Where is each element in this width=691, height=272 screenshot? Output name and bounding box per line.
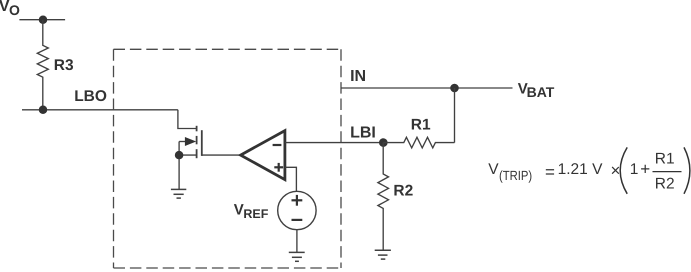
resistor R2 — [378, 143, 389, 251]
voltage source VREF circle — [278, 191, 316, 229]
wire source lead — [179, 154, 196, 156]
equation V(TRIP) — [488, 151, 674, 193]
wire VREF to ground — [296, 230, 298, 253]
svg-text:R1: R1 — [655, 151, 675, 168]
transistor Q1 gate bar — [201, 130, 203, 156]
junction dot VBAT node — [450, 84, 459, 93]
equation fraction bar — [653, 171, 682, 173]
svg-text:1.21 V: 1.21 V — [558, 161, 603, 178]
ground VREF — [289, 252, 305, 261]
wire LBI to minus input — [285, 142, 383, 144]
plus input symbol — [274, 163, 283, 172]
svg-text:LBO: LBO — [74, 88, 107, 105]
junction dot LBO node — [39, 106, 48, 115]
equation big right paren — [684, 147, 690, 193]
wire gate lead to comparator output — [202, 154, 241, 156]
dashed IC boundary box — [114, 49, 342, 268]
svg-text:×: × — [611, 161, 621, 180]
svg-text:R3: R3 — [54, 57, 74, 74]
junction dot source node — [175, 151, 184, 160]
wire IN to VBAT — [341, 87, 513, 89]
VREF minus symbol — [292, 219, 303, 221]
label VREF — [234, 201, 269, 221]
svg-text:REF: REF — [243, 207, 268, 221]
junction dot VO node — [39, 15, 48, 24]
wire plus input to VREF — [285, 167, 297, 191]
transistor Q1 channel bar segments — [196, 126, 198, 158]
svg-text:V: V — [488, 161, 499, 178]
svg-text:O: O — [9, 2, 20, 18]
svg-text:R1: R1 — [411, 117, 431, 134]
svg-text:=: = — [545, 163, 555, 182]
resistor R3 — [37, 20, 48, 110]
transistor Q1 body arrow — [179, 137, 196, 146]
op-amp comparator U1 — [241, 131, 285, 180]
svg-text:+: + — [640, 159, 650, 178]
junction dot LBI node — [379, 138, 388, 147]
resistor R1 — [383, 137, 454, 148]
wire LBO horizontal — [22, 109, 178, 111]
wire VO horizontal — [19, 19, 65, 21]
ground transistor source — [171, 189, 186, 198]
svg-text:IN: IN — [350, 68, 366, 85]
svg-text:R2: R2 — [393, 183, 413, 200]
svg-text:(TRIP): (TRIP) — [499, 168, 532, 183]
equation big left paren — [620, 147, 627, 193]
ground R2 — [375, 250, 391, 259]
wire source/body vertical — [178, 142, 180, 190]
svg-text:BAT: BAT — [527, 84, 555, 100]
svg-text:V: V — [234, 201, 244, 218]
VREF plus symbol — [292, 195, 303, 206]
label VBAT — [518, 80, 555, 100]
wire drain lead from LBO to transistor — [178, 110, 196, 129]
svg-text:LBI: LBI — [350, 124, 376, 141]
wire VBAT node down to R1 — [454, 88, 456, 143]
node VO label — [0, 0, 20, 18]
svg-text:R2: R2 — [655, 175, 675, 192]
svg-text:1: 1 — [630, 161, 639, 178]
minus input symbol — [273, 144, 282, 146]
